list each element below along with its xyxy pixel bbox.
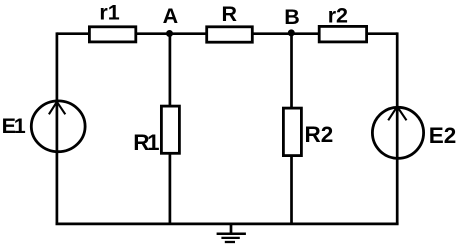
resistor R2	[283, 108, 301, 156]
node A dot	[166, 30, 173, 37]
wire top-left corner to r1	[57, 32, 90, 35]
ground bar 3	[225, 241, 235, 243]
svg-text:E1: E1	[2, 114, 26, 138]
source E1 arrow head	[49, 102, 65, 115]
resistor R1	[161, 106, 179, 153]
wire R2 down to bottom	[290, 156, 293, 224]
ground bar 1	[217, 233, 246, 236]
ground bar 2	[221, 237, 239, 239]
resistor r2	[319, 26, 366, 42]
svg-text:r1: r1	[99, 1, 119, 25]
wire r2 to top-right corner	[367, 32, 397, 35]
wire right branch through E2	[396, 32, 399, 224]
svg-text:R2: R2	[305, 122, 334, 147]
wire r1 to R through node A	[136, 32, 206, 35]
wire R1 down to bottom	[169, 154, 172, 224]
ground stem	[230, 223, 233, 234]
svg-text:r2: r2	[328, 4, 348, 28]
svg-text:B: B	[284, 5, 300, 29]
wire bottom	[56, 222, 399, 225]
resistor r1	[89, 27, 135, 42]
wire node B down to R2	[290, 34, 293, 108]
svg-text:R: R	[222, 2, 238, 26]
source E2 arrow head	[388, 107, 406, 121]
svg-text:R1: R1	[133, 130, 159, 155]
wire left branch through E1	[56, 32, 59, 224]
node B dot	[288, 29, 295, 36]
source E1 circle	[31, 101, 85, 152]
wire R to r2 through node B	[253, 32, 319, 35]
resistor R	[207, 27, 253, 42]
svg-text:A: A	[163, 4, 179, 28]
wire node A down to R1	[169, 34, 172, 106]
svg-text:E2: E2	[429, 123, 457, 148]
source E2 circle	[372, 107, 423, 158]
